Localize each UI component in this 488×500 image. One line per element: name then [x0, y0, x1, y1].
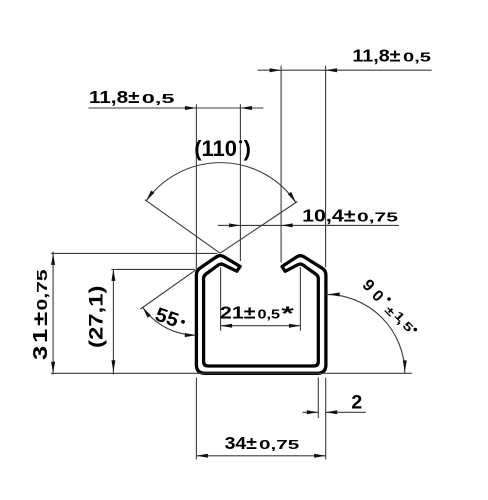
- arrowheads 2: [307, 410, 319, 414]
- extension line wall corner (27,1 dim): [111, 268, 194, 270]
- dimension line 2 (left tail): [303, 411, 319, 413]
- arrowheads 10,4: [229, 223, 241, 227]
- dimension line 11,8 top-left: [89, 107, 264, 109]
- extension line 21 left: [220, 267, 222, 331]
- channel profile outline: [196, 256, 326, 374]
- svg-text:10,4±: 10,4±: [302, 206, 356, 226]
- svg-text:(110: (110: [194, 136, 237, 161]
- svg-text:0,5: 0,5: [142, 92, 175, 106]
- svg-text:0,5: 0,5: [403, 50, 431, 65]
- arrowheads 11,8 top-right: [270, 68, 282, 72]
- arrowheads 21: [221, 324, 233, 328]
- extension line top of profile (31 dim): [51, 252, 217, 254]
- dimension arc 55deg: [143, 307, 197, 335]
- extension line 34 left: [195, 378, 197, 460]
- svg-text:31±: 31±: [29, 309, 52, 360]
- arrowheads 27,1: [111, 269, 115, 281]
- angle text 55°: [152, 304, 187, 334]
- svg-text:0,75: 0,75: [34, 269, 50, 310]
- svg-text:11,8±: 11,8±: [89, 87, 140, 107]
- dimension line 21: [221, 325, 301, 327]
- svg-text:*: *: [281, 303, 294, 325]
- extension line left lip tip: [239, 104, 241, 261]
- arrowheads 34: [196, 454, 208, 458]
- angle leg 110deg right: [220, 202, 297, 254]
- svg-text:55: 55: [152, 304, 181, 332]
- dimension arc 110deg: [146, 163, 296, 203]
- extension line bottom of profile: [51, 372, 412, 374]
- extension line 34 right: [325, 378, 327, 460]
- svg-text:2: 2: [351, 392, 362, 414]
- dimension arc 90deg: [326, 294, 405, 373]
- svg-text:0,75: 0,75: [357, 210, 398, 225]
- extension line wall inner (2 dim): [317, 378, 319, 418]
- extension line left outer wall (top): [195, 104, 197, 269]
- arrowheads 31: [51, 253, 55, 265]
- dimension line 11,8 top-right: [258, 69, 432, 71]
- angle text 90°±1,5°: [359, 276, 417, 335]
- angle leg 55deg: [141, 270, 197, 309]
- svg-text:): ): [244, 136, 251, 161]
- svg-text:0,5: 0,5: [258, 308, 281, 322]
- angle leg 110deg left: [145, 200, 220, 254]
- svg-text:34±: 34±: [225, 433, 257, 453]
- extension line 21 right: [299, 267, 301, 331]
- svg-text:(27,1): (27,1): [85, 285, 107, 348]
- extension line right outer wall (top): [325, 66, 327, 267]
- dimension line 31: [52, 252, 54, 375]
- dimension line 34: [196, 455, 325, 457]
- arrowheads 11,8 top-left: [185, 106, 197, 110]
- svg-text:21±: 21±: [220, 303, 256, 323]
- dimension text 31±0,75 (rotated): [29, 269, 52, 360]
- svg-text:0: 0: [368, 287, 386, 305]
- dimension line 10,4: [218, 224, 399, 226]
- dimension text (27,1) (rotated): [85, 285, 107, 348]
- extension line right lip tip: [280, 66, 282, 263]
- svg-text:11,8±: 11,8±: [352, 45, 400, 65]
- dimension line 27,1: [112, 269, 114, 374]
- dimension line 2 (right tail): [326, 411, 366, 413]
- svg-text:0,75: 0,75: [259, 437, 300, 452]
